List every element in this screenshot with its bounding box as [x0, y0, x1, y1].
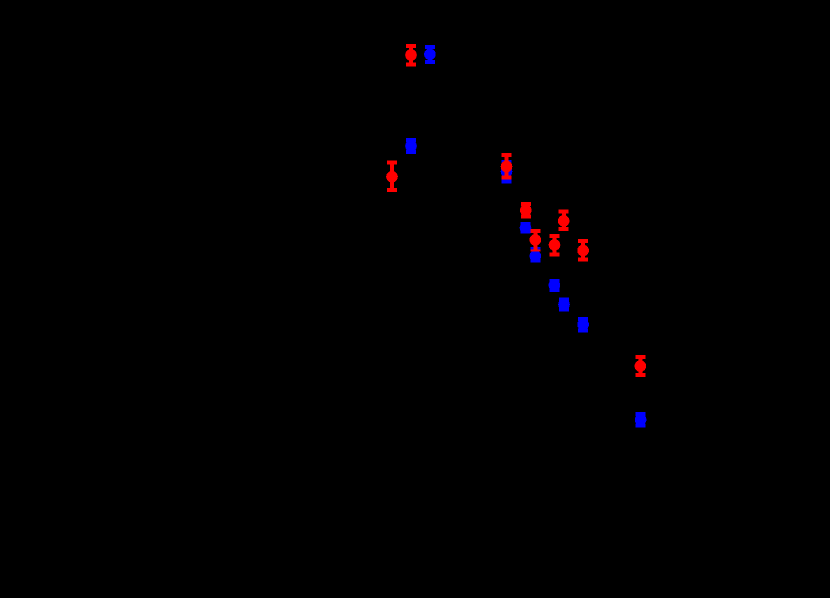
- blue data point B8: [577, 317, 589, 332]
- blue data point B4: [520, 222, 532, 234]
- blue data point B2: [405, 138, 417, 154]
- blue data point B3: [501, 160, 513, 183]
- red data point R9: [635, 355, 647, 377]
- blue data point B1: [424, 45, 436, 64]
- red data point R2: [386, 161, 398, 193]
- red data point R1: [405, 44, 417, 67]
- red data point R5: [558, 210, 570, 232]
- red data point R7: [549, 234, 561, 256]
- blue data point B5: [530, 247, 542, 263]
- red data point R8: [577, 239, 589, 261]
- blue data point B7: [558, 298, 570, 312]
- red data point R3: [501, 153, 513, 180]
- red data point R6: [530, 229, 542, 251]
- blue data point B9: [635, 412, 647, 427]
- blue data point B6: [549, 279, 561, 292]
- red data point R4: [520, 202, 532, 219]
